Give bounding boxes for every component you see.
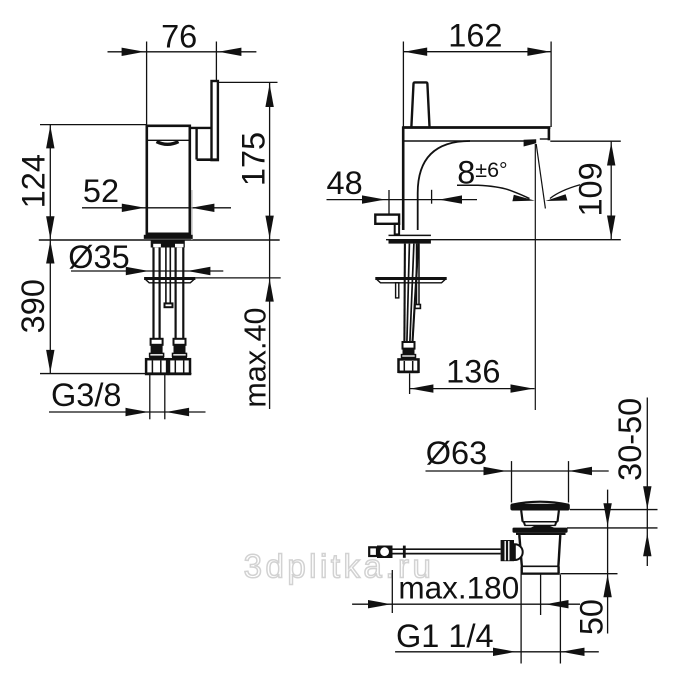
svg-text:max.180: max.180 (398, 570, 519, 606)
svg-text:G3/8: G3/8 (51, 377, 121, 413)
svg-text:30-50: 30-50 (612, 398, 648, 481)
svg-text:52: 52 (83, 173, 119, 209)
svg-text:175: 175 (236, 132, 272, 186)
svg-text:max.40: max.40 (239, 308, 273, 408)
svg-text:124: 124 (16, 154, 52, 208)
svg-text:G1 1/4: G1 1/4 (396, 618, 494, 654)
svg-text:Ø63: Ø63 (426, 435, 487, 471)
svg-text:109: 109 (573, 162, 609, 216)
svg-text:76: 76 (161, 19, 197, 55)
svg-text:390: 390 (15, 279, 51, 333)
svg-text:136: 136 (446, 354, 500, 390)
svg-text:Ø35: Ø35 (68, 239, 129, 275)
svg-text:162: 162 (448, 18, 502, 54)
svg-text:±6°: ±6° (475, 158, 507, 182)
svg-text:48: 48 (327, 165, 363, 201)
